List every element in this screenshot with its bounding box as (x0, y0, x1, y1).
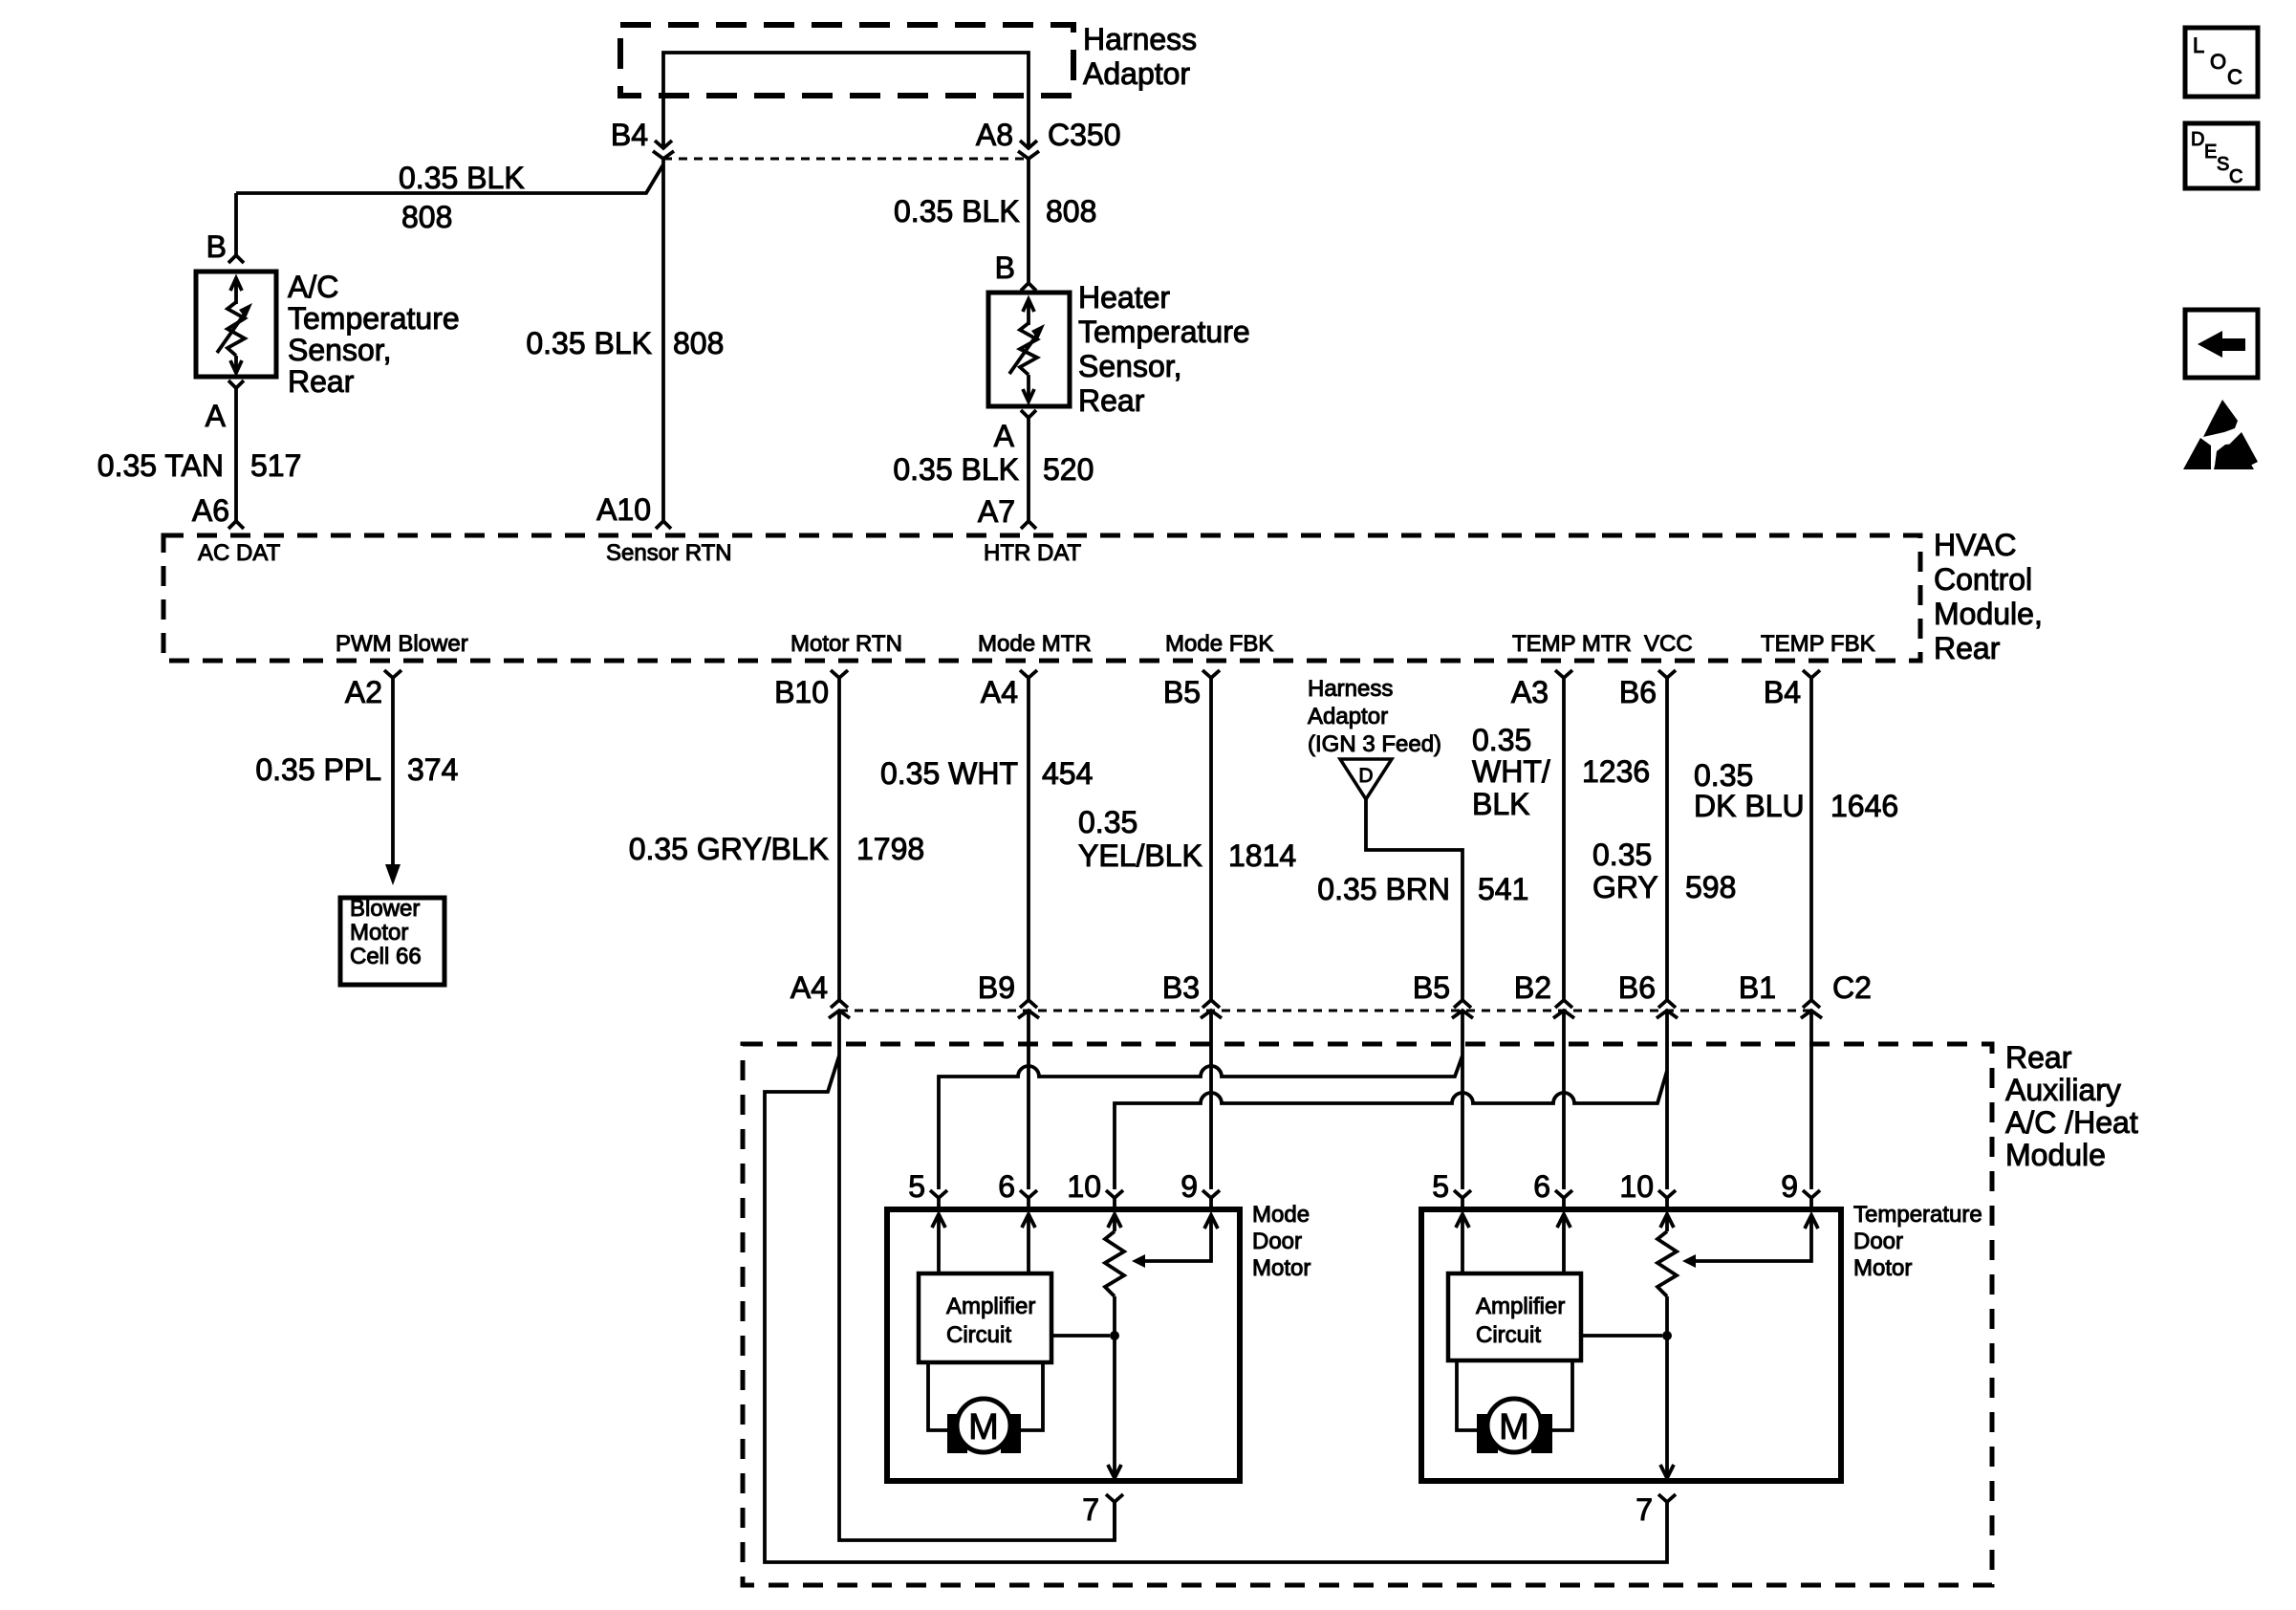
svg-text:0.35: 0.35 (1472, 723, 1531, 757)
svg-text:808: 808 (673, 326, 724, 360)
svg-text:VCC: VCC (1644, 631, 1693, 657)
svg-text:DK BLU: DK BLU (1694, 789, 1805, 823)
svg-text:HTR DAT: HTR DAT (984, 540, 1082, 566)
svg-text:Motor: Motor (1853, 1255, 1912, 1281)
svg-text:A6: A6 (192, 493, 229, 528)
svg-text:Temperature: Temperature (1853, 1202, 1982, 1228)
svg-text:B1: B1 (1739, 970, 1776, 1005)
svg-text:0.35 BLK: 0.35 BLK (894, 194, 1020, 228)
svg-text:A: A (206, 399, 227, 433)
svg-text:A/C: A/C (288, 270, 338, 304)
svg-text:Amplifier: Amplifier (946, 1294, 1035, 1319)
svg-text:1236: 1236 (1582, 754, 1650, 789)
svg-text:1798: 1798 (856, 832, 924, 866)
svg-text:B2: B2 (1514, 970, 1551, 1005)
svg-text:B6: B6 (1619, 675, 1657, 709)
svg-text:S: S (2217, 154, 2229, 175)
svg-text:0.35 PPL: 0.35 PPL (255, 752, 381, 787)
svg-text:0.35: 0.35 (1592, 838, 1652, 872)
svg-text:10: 10 (1067, 1169, 1101, 1204)
svg-text:B5: B5 (1413, 970, 1450, 1005)
svg-text:0.35 WHT: 0.35 WHT (880, 756, 1018, 791)
svg-text:L: L (2193, 33, 2204, 57)
svg-text:Module: Module (2005, 1138, 2106, 1172)
svg-text:A2: A2 (345, 675, 382, 709)
svg-text:0.35 TAN: 0.35 TAN (97, 448, 224, 483)
svg-text:Temperature: Temperature (1078, 315, 1250, 349)
svg-text:WHT/: WHT/ (1472, 754, 1550, 789)
svg-text:517: 517 (250, 448, 301, 483)
svg-text:B9: B9 (978, 970, 1015, 1005)
svg-text:Motor: Motor (350, 920, 408, 946)
svg-text:5: 5 (1432, 1169, 1449, 1204)
svg-text:Adaptor: Adaptor (1083, 56, 1190, 91)
svg-text:Rear: Rear (288, 364, 355, 399)
svg-text:A/C /Heat: A/C /Heat (2005, 1105, 2138, 1140)
svg-text:0.35 BLK: 0.35 BLK (399, 161, 525, 195)
svg-text:9: 9 (1781, 1169, 1798, 1204)
svg-text:A8: A8 (976, 118, 1013, 152)
svg-text:PWM Blower: PWM Blower (336, 631, 468, 657)
svg-text:YEL/BLK: YEL/BLK (1078, 838, 1202, 873)
svg-text:A3: A3 (1511, 675, 1549, 709)
svg-text:Mode MTR: Mode MTR (978, 631, 1092, 657)
svg-text:Rear: Rear (1078, 383, 1145, 418)
svg-text:598: 598 (1685, 870, 1736, 904)
svg-text:A4: A4 (791, 970, 828, 1005)
svg-text:Harness: Harness (1083, 22, 1197, 56)
svg-text:0.35 BRN: 0.35 BRN (1317, 872, 1450, 906)
svg-text:Circuit: Circuit (1476, 1322, 1541, 1348)
svg-text:Control: Control (1934, 562, 2032, 597)
svg-text:E: E (2204, 141, 2217, 163)
svg-text:D: D (2191, 129, 2204, 150)
svg-text:TEMP FBK: TEMP FBK (1761, 631, 1875, 657)
svg-text:B4: B4 (1764, 675, 1801, 709)
svg-text:Mode FBK: Mode FBK (1165, 631, 1273, 657)
svg-text:7: 7 (1082, 1492, 1099, 1527)
svg-text:5: 5 (908, 1169, 925, 1204)
svg-text:6: 6 (1533, 1169, 1550, 1204)
svg-text:Circuit: Circuit (946, 1322, 1011, 1348)
svg-text:M: M (968, 1407, 999, 1447)
svg-text:AC DAT: AC DAT (198, 540, 281, 566)
svg-text:Cell 66: Cell 66 (350, 944, 422, 969)
svg-text:Blower: Blower (350, 896, 420, 922)
svg-text:0.35: 0.35 (1694, 758, 1753, 793)
svg-text:C2: C2 (1832, 970, 1872, 1005)
svg-text:Motor RTN: Motor RTN (791, 631, 902, 657)
svg-text:C: C (2229, 166, 2242, 187)
svg-text:A: A (994, 419, 1015, 453)
svg-text:C350: C350 (1048, 118, 1121, 152)
svg-text:808: 808 (401, 200, 452, 234)
svg-text:808: 808 (1046, 194, 1096, 228)
svg-text:Harness: Harness (1308, 676, 1393, 702)
svg-text:B5: B5 (1163, 675, 1201, 709)
svg-text:Door: Door (1853, 1229, 1903, 1254)
svg-text:B3: B3 (1162, 970, 1200, 1005)
svg-text:Rear: Rear (2005, 1040, 2072, 1075)
svg-text:A4: A4 (981, 675, 1018, 709)
svg-text:BLK: BLK (1472, 787, 1529, 821)
svg-text:Mode: Mode (1252, 1202, 1310, 1228)
svg-text:Motor: Motor (1252, 1255, 1310, 1281)
svg-text:541: 541 (1478, 872, 1528, 906)
svg-text:Temperature: Temperature (288, 301, 460, 336)
svg-text:10: 10 (1619, 1169, 1654, 1204)
svg-text:HVAC: HVAC (1934, 528, 2017, 562)
svg-text:Heater: Heater (1078, 280, 1170, 315)
svg-text:520: 520 (1043, 452, 1094, 487)
svg-text:GRY: GRY (1592, 870, 1658, 904)
svg-text:Sensor RTN: Sensor RTN (606, 540, 732, 566)
svg-text:Module,: Module, (1934, 597, 2043, 631)
svg-text:Rear: Rear (1934, 631, 2001, 665)
svg-text:D: D (1358, 765, 1373, 787)
svg-text:Adaptor: Adaptor (1308, 704, 1388, 729)
svg-text:1646: 1646 (1830, 789, 1898, 823)
svg-text:7: 7 (1635, 1492, 1653, 1527)
svg-text:O: O (2210, 50, 2226, 74)
svg-text:(IGN 3 Feed): (IGN 3 Feed) (1308, 731, 1441, 757)
svg-text:6: 6 (998, 1169, 1015, 1204)
svg-text:0.35 BLK: 0.35 BLK (526, 326, 652, 360)
svg-text:454: 454 (1042, 756, 1093, 791)
svg-text:1814: 1814 (1228, 838, 1296, 873)
svg-text:Auxiliary: Auxiliary (2005, 1073, 2121, 1107)
svg-text:Amplifier: Amplifier (1476, 1294, 1565, 1319)
svg-text:C: C (2227, 65, 2242, 89)
svg-text:Sensor,: Sensor, (288, 333, 392, 367)
svg-text:M: M (1499, 1407, 1529, 1447)
svg-text:9: 9 (1180, 1169, 1198, 1204)
svg-text:B: B (995, 250, 1015, 285)
svg-text:B: B (206, 229, 227, 264)
svg-text:B6: B6 (1618, 970, 1656, 1005)
svg-text:A7: A7 (978, 494, 1015, 529)
svg-text:0.35 BLK: 0.35 BLK (893, 452, 1019, 487)
svg-text:Sensor,: Sensor, (1078, 349, 1182, 383)
svg-text:A10: A10 (596, 492, 651, 527)
svg-text:TEMP MTR: TEMP MTR (1512, 631, 1632, 657)
svg-text:374: 374 (407, 752, 458, 787)
svg-text:B4: B4 (611, 118, 648, 152)
svg-text:0.35 GRY/BLK: 0.35 GRY/BLK (629, 832, 829, 866)
svg-text:0.35: 0.35 (1078, 805, 1137, 839)
svg-text:B10: B10 (774, 675, 829, 709)
svg-text:Door: Door (1252, 1229, 1302, 1254)
